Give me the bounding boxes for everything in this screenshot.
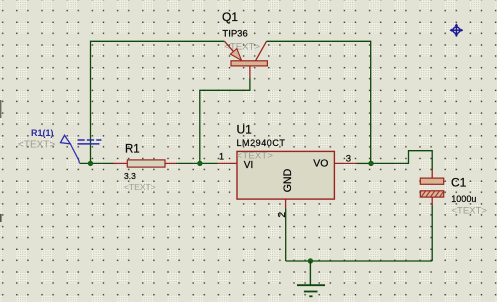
junction node at ground rail [308,258,313,263]
regulator U1 body [237,151,334,199]
regulator U1 pin 1 [217,162,237,164]
wire C1 bottom to ground rail [431,206,433,262]
wire U1 pin2 to ground rail [285,209,287,262]
svg-text:<TEXT>: <TEXT> [124,182,156,192]
transistor Q1 [225,41,268,78]
svg-text:3: 3 [346,153,351,164]
wire Q1 base to rail [200,78,250,163]
wire output node to C1 top [371,151,432,170]
svg-text:GND: GND [282,168,294,192]
wire Q1 collector to output node [267,41,371,163]
resistor R1 [113,160,176,167]
svg-text:VO: VO [313,157,328,169]
svg-text:R1: R1 [125,144,140,156]
svg-text:LM2940CT: LM2940CT [237,138,286,148]
wire probe rail to R1 [80,162,114,164]
svg-text:Q1: Q1 [222,10,238,24]
svg-text:<TEXT>: <TEXT> [452,206,488,217]
wire rail junction up and to Q1 emitter [91,41,225,163]
wire U1 pin3 to output node [357,162,372,164]
voltage probe R1(1) [61,135,102,163]
svg-text:C1: C1 [451,176,467,190]
junction node at probe/R1 rail [88,161,93,166]
svg-text:TIP36: TIP36 [222,29,247,40]
regulator U1 pin 2 [285,199,287,209]
screen edge artifact left [0,100,2,222]
origin marker [450,23,464,37]
capacitor C1 [420,170,443,206]
regulator U1 pin 3 [334,162,356,164]
ground [297,261,325,296]
svg-text:U1: U1 [237,123,253,137]
wire ground rail [286,260,433,262]
svg-text:1000u: 1000u [451,194,476,204]
wire R1 to U1 pin1 [176,162,218,164]
svg-text:R1(1): R1(1) [31,128,54,138]
svg-text:<TEXT>: <TEXT> [18,140,55,151]
svg-text:VI: VI [244,160,253,171]
svg-text:<TEXT>: <TEXT> [237,151,274,162]
svg-text:2: 2 [276,212,288,218]
junction node at Q1 base/rail [197,161,202,166]
svg-text:1: 1 [219,152,224,162]
junction node at output [368,161,373,166]
svg-text:3.3: 3.3 [124,171,136,181]
